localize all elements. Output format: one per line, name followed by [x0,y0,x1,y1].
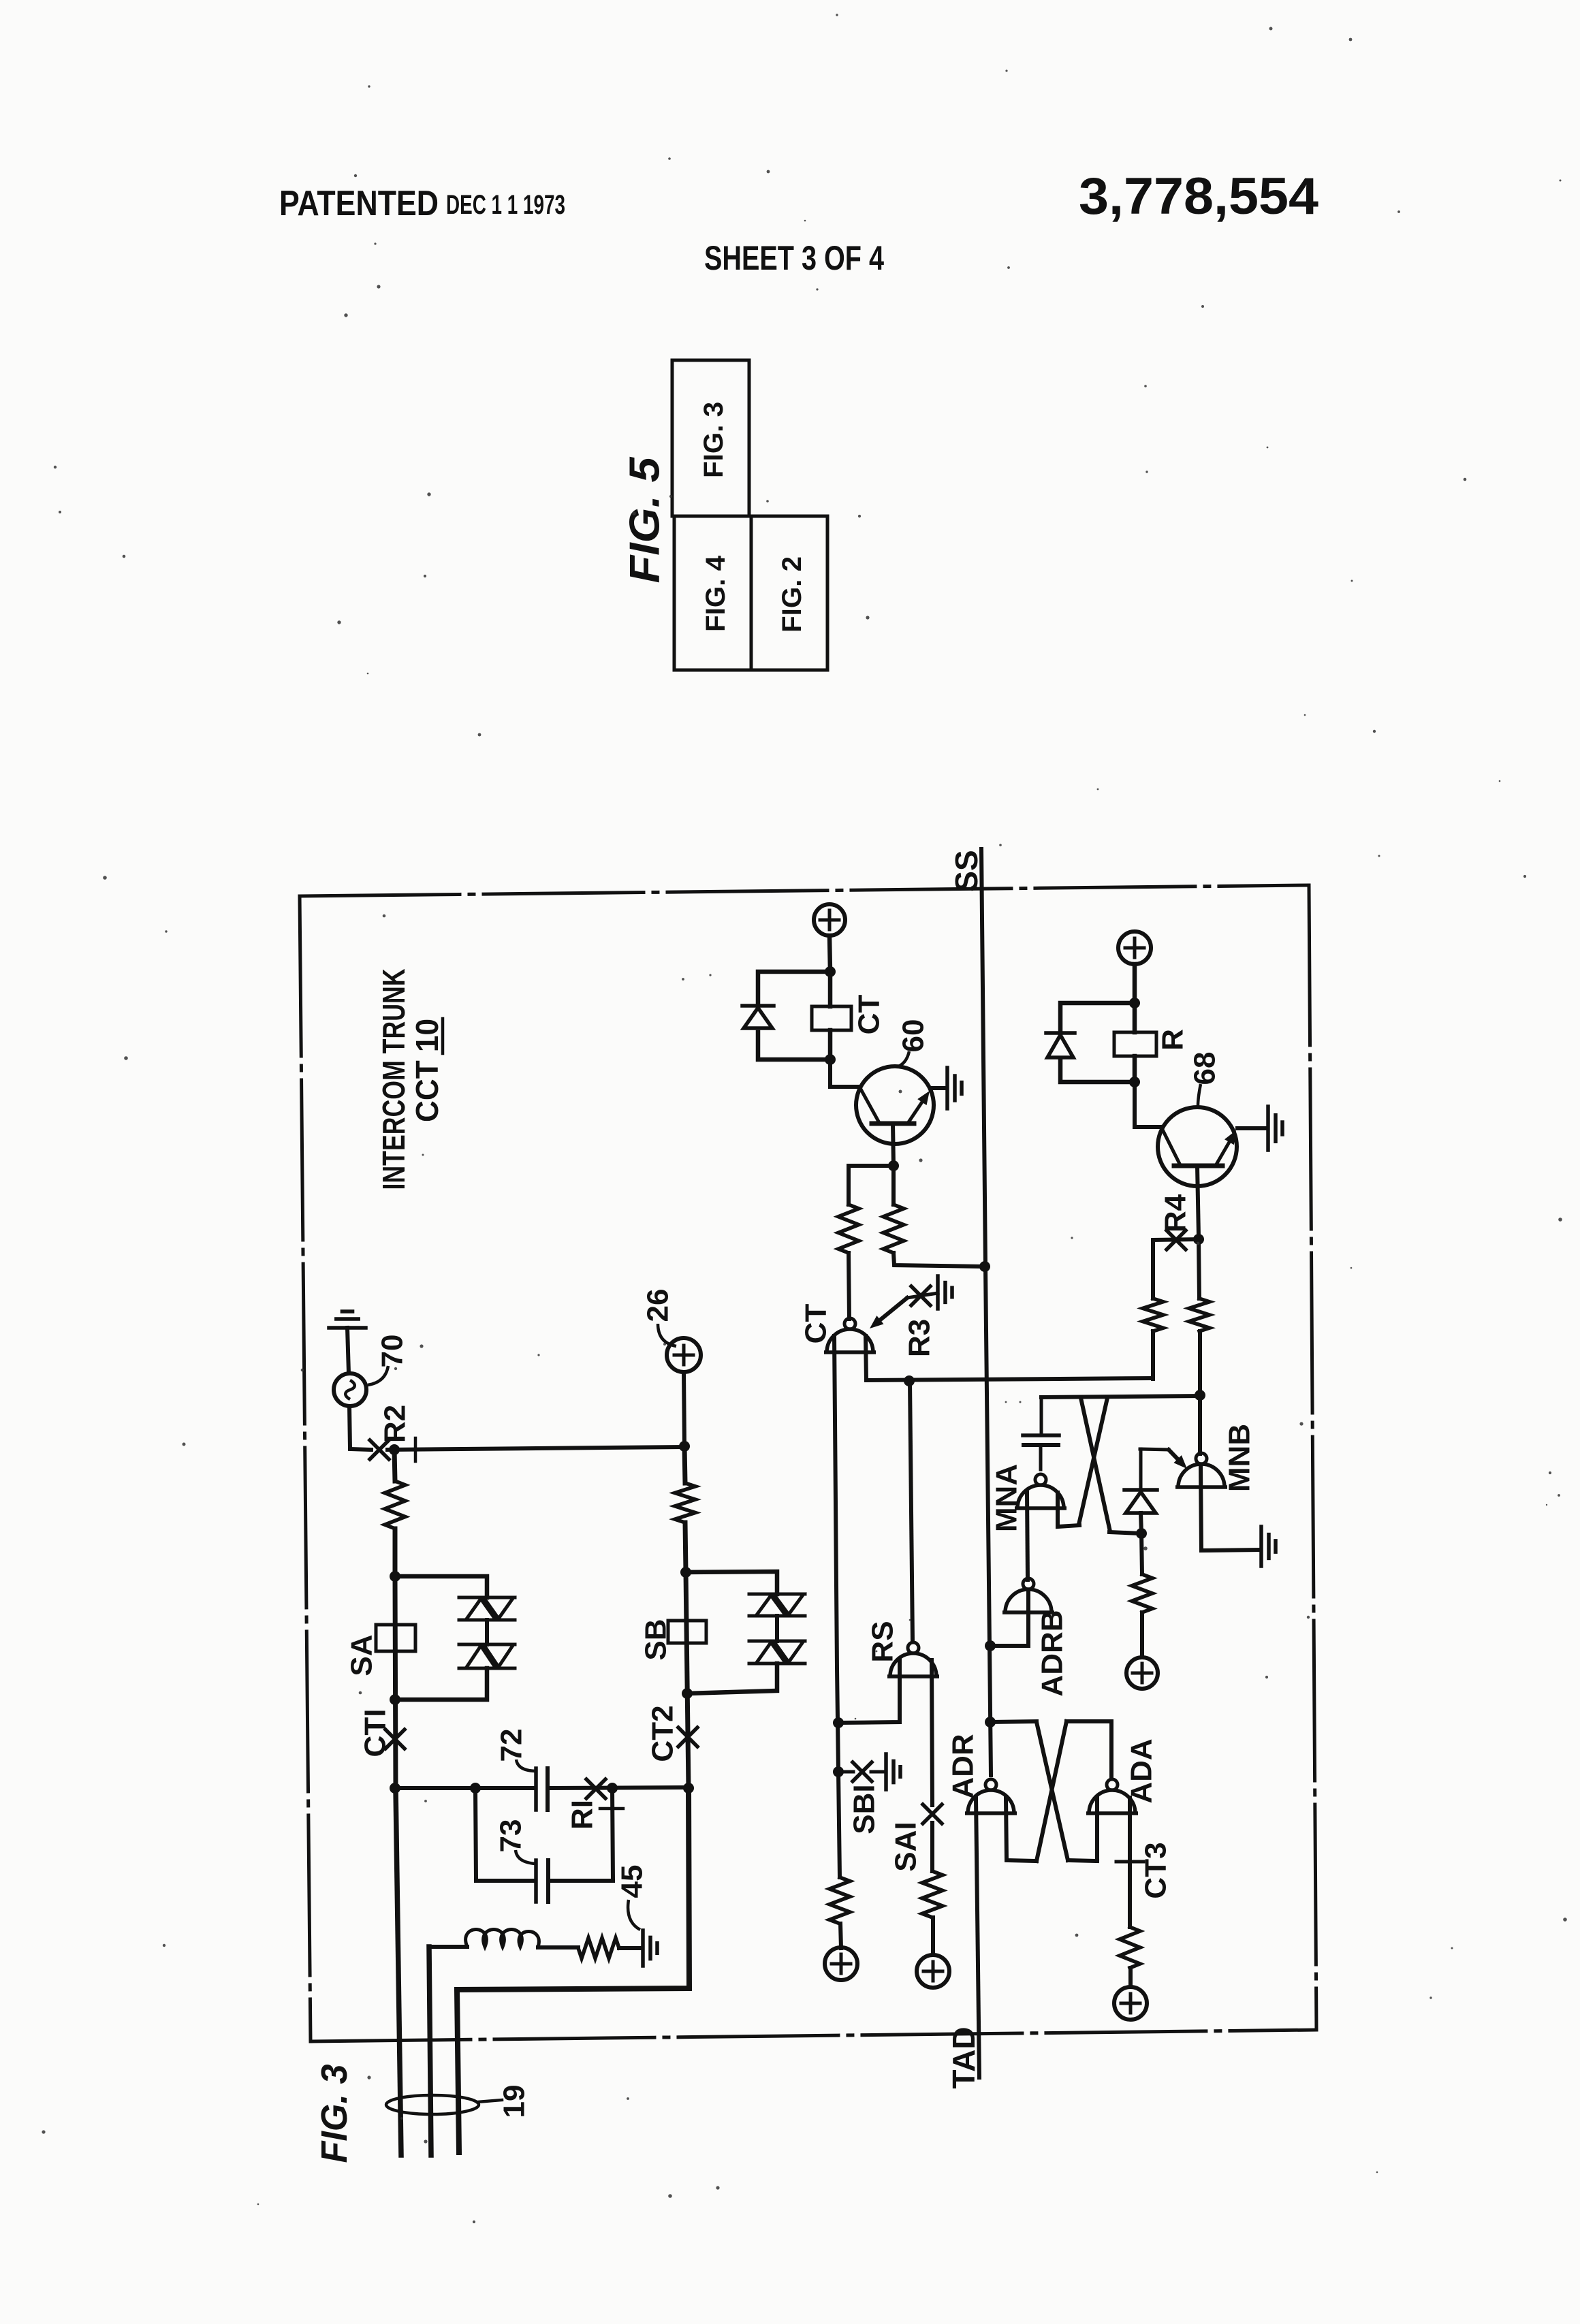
junction dot R relay top [1129,998,1140,1008]
wire ADA top rail [1066,1719,1111,1723]
relay coil SA [376,1625,415,1651]
junction dot RS takeoff [904,1375,915,1386]
label 45 with leader [616,1865,649,1930]
wire supply to CT relay node [829,936,830,972]
wire SA triac loop bottom [395,1668,487,1700]
wire through CT relay coil [828,972,833,1060]
wire 26 to junction [684,1372,684,1446]
relay coil R [1114,1032,1156,1056]
inductor coil [466,1930,539,1947]
wire MN cross-coupling top rail [1041,1396,1200,1397]
wire SB triac loop bottom [687,1664,777,1693]
junction dot 26 node [679,1441,690,1452]
wire trunk cable line A [396,1788,401,2155]
label SA1 [889,1821,923,1871]
wire CT relay to transistor 60 collector [830,1060,859,1087]
wire ADR top rail [990,1721,1037,1722]
wire SA triac loop top [395,1576,487,1597]
wire CT gate right input to bus [866,1336,1152,1380]
svg-text:FIG. 3: FIG. 3 [314,2065,355,2163]
contact R4 (X) [1167,1230,1186,1249]
wire trunk cable line B vertical [429,1947,431,2155]
svg-text:INTERCOM TRUNK: INTERCOM TRUNK [376,969,411,1190]
svg-text:R2: R2 [379,1405,412,1443]
triac pair SA upper [459,1597,515,1620]
wire between SB triacs [775,1616,779,1641]
svg-text:ADR: ADR [947,1734,980,1798]
resistor in inductor branch [578,1938,619,1958]
supply circle 26 (+) [667,1338,701,1372]
wire SA1 to resistor [930,1823,934,1871]
svg-text:68: 68 [1188,1052,1222,1085]
wire through MNB to ground [1201,1465,1260,1550]
relay coil SB [668,1621,706,1643]
ground symbol above AC source 70 [329,1311,366,1328]
wire R2 to node 26 junction [388,1447,684,1450]
label INTERCOM TRUNK [376,969,411,1190]
ground symbol at SB1 [886,1754,900,1789]
svg-text:45: 45 [616,1865,649,1898]
NAND gate ADA [1086,1779,1138,1813]
junction dot R relay bottom [1129,1077,1140,1087]
FIG. 3 title label [314,2065,355,2163]
label SB1 [848,1784,881,1834]
resistor base to SS [883,1205,904,1253]
wire stub to ADA left input [1068,1860,1097,1861]
AC source 70 circle [334,1373,366,1406]
label 26 with leader [642,1289,677,1346]
wire ADA left input up [1095,1798,1099,1861]
resistor SB1 branch [829,1877,850,1924]
contact CT1 (X) [385,1730,405,1749]
wire MN bottom rail [1109,1532,1141,1533]
junction dot R4 node [1193,1234,1204,1245]
wire resistor to SA node [393,1529,398,1576]
NAND gate MNA [1015,1474,1066,1508]
junction dot SB loop bottom [682,1688,693,1699]
svg-text:FIG. 3: FIG. 3 [699,402,729,478]
resistor base to CT gate [838,1205,859,1253]
wire ADR cross diagonal B [1037,1721,1066,1861]
wire RS right input to SA1 [932,1660,932,1805]
ground symbol at R3 [938,1276,952,1309]
wire SB triac loop top [686,1572,777,1594]
wire ADA output down [1109,1721,1113,1778]
wire MNA left input to ADRB [1027,1493,1028,1580]
diode MNB input [1124,1449,1157,1513]
diode across R relay [1046,1033,1075,1057]
transistor Q60 emitter with arrow [908,1091,930,1122]
contact SB1 (X) [853,1762,872,1781]
svg-text:CT: CT [800,1304,833,1344]
wire MNA bubble to capacitor [1039,1445,1043,1469]
supply circle (+) SA1 branch [917,1955,949,1988]
FIG. 5 title label [622,456,669,584]
label 70 with leader [368,1335,409,1385]
wire resistor to supply SB1 branch [840,1924,841,1948]
wire MN cross diagonal B [1079,1398,1107,1525]
label CT3 [1139,1842,1173,1898]
svg-text:SBI: SBI [848,1784,881,1834]
wire ADR right input [1006,1798,1037,1861]
wire Q60 emitter to ground [932,1086,946,1090]
NAND gate RS [887,1642,939,1676]
resistor ADRB branch [1132,1574,1152,1612]
wire ADR left input to TAD [976,1798,979,2078]
FIG. 5 box FIG. 4 [674,516,751,670]
wire resistor to supply CT3 branch [1128,1968,1133,1987]
svg-text:PATENTED: PATENTED [279,184,439,223]
wire Q68 base down [1197,1166,1199,1237]
junction dot ADRB input node [985,1640,996,1651]
NAND gate ADRB [1002,1578,1054,1612]
wire resistor to SS bus [894,1253,983,1267]
label 60 with leader [897,1019,930,1067]
contact CT2 (X) [678,1728,697,1747]
label 72 with leader [495,1729,536,1771]
contact R3 stub to ground [907,1293,938,1298]
junction dot SB1 node [833,1766,844,1777]
triac pair SB upper [749,1594,805,1616]
supply circle (+) top of R relay [1118,932,1151,964]
wire ADA right input [1128,1798,1132,1858]
wire SB bottom run [457,1788,689,2152]
NAND gate CT [824,1318,876,1352]
svg-text:R3: R3 [903,1319,936,1357]
junction dot diode node [1136,1528,1147,1539]
resistor R4 branch right [1189,1299,1210,1331]
FIG 3 dash-dot border right [1309,885,1316,2030]
wire CT diode loop [758,972,830,1060]
supply circle (+) ADRB branch [1126,1657,1158,1689]
FIG 3 dash-dot border left [300,896,311,2041]
svg-text:ADA: ADA [1125,1738,1158,1803]
wire inductor feed corner [429,1945,467,1949]
svg-text:FIG. 4: FIG. 4 [701,555,731,632]
wire SS vertical line (SS bus down to ADR gate output) [981,849,991,1775]
wire capacitor 72 to contact R1 [548,1787,687,1788]
label ADRB [1036,1610,1069,1696]
contact R1 (X) [586,1779,605,1798]
transistor Q68 emitter with arrow [1216,1130,1236,1164]
label SA [345,1634,379,1676]
capacitor at MNA output [1023,1435,1059,1445]
junction dot capacitor block left [470,1783,481,1794]
FIG. 5 box FIG. 3 [672,360,749,516]
label RS [866,1621,900,1662]
svg-text:RS: RS [866,1621,900,1662]
label CT1 [359,1709,392,1757]
wire SA vertical through relay [395,1576,396,1788]
svg-text:TAD: TAD [946,2026,981,2088]
contact CT3 tick [1116,1860,1143,1864]
junction dot SB loop top [680,1567,691,1578]
label MNB [1223,1424,1257,1492]
junction dot right of R1 [607,1783,618,1794]
wire ADR cross diagonal A [1037,1722,1068,1860]
wire down to resistor SA branch [394,1450,395,1481]
wire MN cross diagonal A [1081,1398,1110,1531]
wire inductor to resistor [538,1945,578,1949]
transistor Q60 collector stroke [859,1087,879,1121]
wire resistor to SB node [685,1523,686,1572]
svg-text:MNB: MNB [1223,1424,1257,1492]
label R2 [379,1405,412,1443]
label 68 with leader [1188,1052,1222,1106]
wire resistor to CT gate output [849,1253,849,1319]
svg-text:RI: RI [566,1800,599,1830]
triac pair SA lower [459,1644,515,1668]
svg-text:72: 72 [495,1729,528,1762]
junction dot SB capacitor node [683,1783,694,1794]
FIG 3 dash-dot border top [300,885,1309,896]
label R1 [566,1800,599,1830]
contact SA1 (X) [923,1804,942,1824]
wire diode to junction [1141,1513,1141,1533]
wire Q68 emitter to ground [1237,1126,1266,1130]
svg-text:R: R [1156,1029,1190,1051]
ground symbol at Q60 emitter [947,1068,962,1109]
wire resistor to supply [931,1917,935,1955]
wire ground to AC source [347,1328,349,1373]
contact R2 tick [414,1438,417,1461]
svg-text:26: 26 [642,1289,675,1322]
wire base node to right resistor [891,1166,896,1205]
wire CT3 to resistor [1128,1862,1132,1927]
transistor Q60 base bar [872,1121,914,1126]
svg-text:MNA: MNA [990,1464,1024,1532]
junction dot CT relay bottom [825,1054,836,1065]
junction dot MNB input node [1195,1390,1205,1401]
arrow R3 into CT gate [870,1298,907,1328]
svg-text:73: 73 [494,1819,528,1853]
svg-text:SA: SA [345,1634,379,1676]
wire resistor to supply ADRB branch [1140,1612,1144,1657]
svg-text:SB: SB [639,1619,673,1660]
svg-text:SHEET 3 OF 4: SHEET 3 OF 4 [704,239,884,277]
wire base node to left resistor [849,1166,894,1205]
wire capacitor 73 loop bottom-right [548,1879,613,1883]
wire MNA right input stub [1058,1493,1079,1527]
wire R relay to transistor 68 collector [1135,1082,1161,1127]
junction dot CT1 node [390,1783,400,1794]
svg-text:70: 70 [376,1335,409,1368]
contact SB1 stub [840,1770,853,1774]
label R3 [903,1319,936,1357]
wire AC source to contact R2 [349,1406,371,1450]
diode across CT relay [742,1006,774,1028]
svg-text:FIG. 5: FIG. 5 [622,456,669,584]
label R relay [1156,1029,1190,1051]
resistor SA branch [385,1481,405,1529]
relay coil CT [812,1006,851,1030]
ground symbol at MNB [1261,1527,1276,1566]
wire resistor to ground 45 [619,1946,641,1950]
transistor Q68 collector stroke [1161,1127,1180,1164]
svg-text:ADRB: ADRB [1036,1610,1069,1696]
capacitor 72 plates [536,1768,548,1810]
wire between SA triacs [485,1620,489,1644]
supply circle (+) top of CT relay [814,904,845,936]
NAND gate MNB [1175,1453,1227,1487]
resistor R4 branch left [1143,1299,1163,1331]
junction dot on SS bus [979,1261,990,1272]
wire SB1 to ground [871,1770,885,1774]
NAND gate ADR [965,1779,1017,1813]
triac pair SB lower [749,1641,805,1664]
resistor SA1 branch [922,1871,943,1917]
cable tie ellipse 19 [386,2095,502,2114]
label CT2 [646,1705,680,1762]
wire R4 node down to right resistor [1199,1239,1199,1299]
supply circle (+) CT3 branch [1114,1987,1147,2020]
wire RS takeoff down to RS gate [910,1381,913,1642]
label R4 [1159,1194,1192,1232]
junction dot RS left input node [833,1717,844,1728]
junction dot left main node [389,1444,400,1455]
label ADA [1125,1738,1158,1803]
wire ADRB branch resistor feed [1141,1533,1142,1574]
wire SB vertical through relay [686,1572,689,1788]
ground symbol at Q68 emitter [1268,1107,1282,1150]
label MNA [990,1464,1024,1532]
header sheet label SHEET 3 OF 4 [704,239,884,277]
wire capacitor 73 loop left [475,1788,476,1881]
svg-text:CT3: CT3 [1139,1842,1173,1898]
svg-text:CTI: CTI [359,1709,392,1757]
svg-text:CT2: CT2 [646,1705,680,1762]
junction dot SA loop top [390,1571,400,1582]
wire MNB input vertical [1198,1395,1202,1454]
label CT relay [853,995,886,1035]
wire left resistor to CT bus [1151,1331,1155,1379]
wire RS left input [840,1660,900,1723]
FIG. 5 box FIG. 2 [751,516,827,670]
svg-text:SS: SS [949,850,984,891]
wire through R relay coil [1133,1003,1137,1082]
svg-text:19: 19 [498,2085,531,2118]
wire R4 to left resistor [1151,1240,1155,1299]
wire Q60 base down [893,1124,894,1166]
header patent number 3,778,554 [1079,168,1318,225]
svg-text:FIG. 2: FIG. 2 [777,556,807,633]
node SS label [949,850,984,891]
label CCT 10 [409,1019,445,1122]
arrow into MNB gate [1140,1449,1187,1469]
svg-text:CT: CT [853,995,886,1035]
transistor Q60 circle [856,1066,934,1144]
wire CT gate left input long vertical [834,1336,840,1877]
junction dot Q60 base node [888,1160,899,1171]
label 73 with leader [494,1819,536,1864]
junction dot SA loop bottom [390,1694,400,1705]
label SB [639,1619,673,1660]
wire ADRB input from SS [990,1592,1028,1646]
ground symbol 45 [643,1930,657,1966]
contact R1 tick [600,1807,623,1811]
wire capacitor 73 loop bottom-left [476,1879,535,1883]
label CT gate [800,1304,833,1344]
wire supply to R relay node [1133,964,1137,1003]
label ADR [947,1734,980,1798]
contact R2 (X) [370,1440,389,1459]
label 19 [498,2085,531,2118]
junction dot ADR output node [985,1717,996,1728]
capacitor 73 plates [536,1860,548,1902]
svg-text:R4: R4 [1159,1194,1192,1232]
junction dot CT relay top [825,966,836,977]
header patent date stamp PATENTED DEC 11 1973 [279,184,565,223]
transistor Q68 base bar [1174,1164,1222,1168]
transistor Q68 circle [1158,1107,1237,1186]
wire capacitor 73 loop right [612,1788,613,1881]
resistor CT3 branch [1120,1927,1140,1968]
FIG 3 dash-dot border bottom [311,2030,1316,2041]
resistor SB branch [675,1483,695,1523]
supply circle (+) SB1 branch [825,1947,857,1980]
svg-text:SAI: SAI [889,1821,923,1871]
wire node to capacitor 72 [396,1786,535,1790]
svg-text:DEC 1 1 1973: DEC 1 1 1973 [446,190,565,220]
wire right resistor to MNB node [1198,1331,1202,1395]
wire R diode loop [1060,1003,1135,1082]
svg-text:60: 60 [897,1019,930,1053]
svg-text:3,778,554: 3,778,554 [1079,168,1318,225]
wire R4 jog [1154,1239,1199,1240]
wire junction to resistor SB branch [684,1446,685,1483]
label TAD [946,2026,981,2088]
svg-text:CCT 10: CCT 10 [409,1019,445,1122]
wire capacitor to top rail [1040,1397,1043,1435]
contact R3 (X) [911,1286,930,1305]
